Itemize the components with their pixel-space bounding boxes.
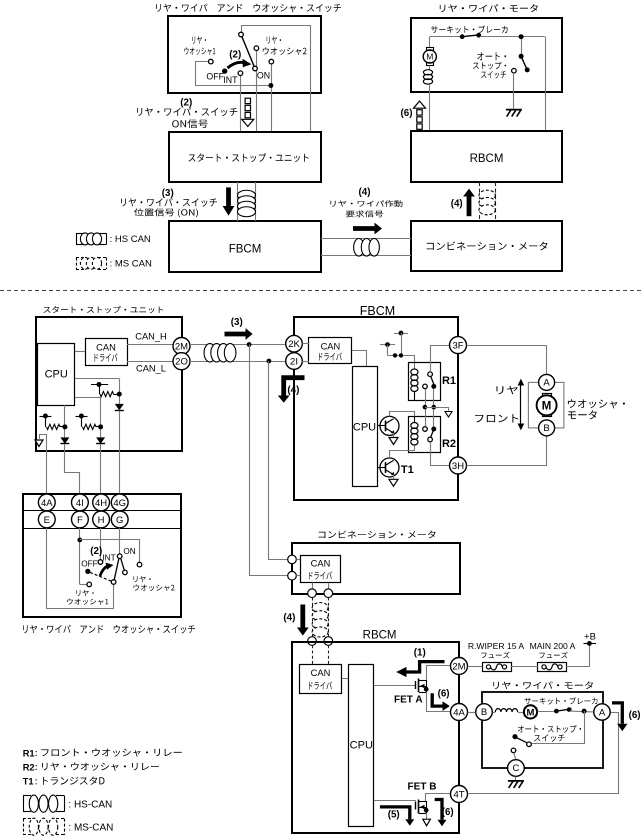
svg-text:ON: ON [257,70,270,80]
svg-text:T1: T1 [401,464,414,476]
svg-text:(2): (2) [180,98,192,109]
svg-text:: MS CAN: : MS CAN [110,259,152,270]
svg-text:(4): (4) [287,385,299,396]
svg-text:CAN_L: CAN_L [136,363,166,373]
svg-text:: MS-CAN: : MS-CAN [68,822,113,833]
svg-text:+B: +B [584,631,596,642]
svg-text:M: M [527,707,535,718]
svg-text:R.WIPER 15 A: R.WIPER 15 A [468,641,525,651]
svg-text:CAN_H: CAN_H [135,331,167,341]
svg-text:4H: 4H [95,498,107,509]
svg-text:(5): (5) [388,810,400,821]
svg-text:ON: ON [123,547,135,556]
svg-text:(6): (6) [629,710,641,721]
svg-text:A: A [543,378,550,389]
svg-text:RBCM: RBCM [470,153,504,165]
svg-text:CAN: CAN [321,342,341,352]
svg-text:F: F [77,515,83,526]
svg-text:2I: 2I [290,356,298,367]
svg-text:OFF: OFF [206,72,224,82]
svg-text:CPU: CPU [353,421,376,433]
svg-text:INT: INT [223,75,238,85]
svg-text:G: G [116,515,123,526]
svg-text:4T: 4T [453,789,464,800]
svg-text:CAN: CAN [96,343,116,353]
svg-text:4G: 4G [113,498,126,509]
svg-text:FET A: FET A [394,694,423,705]
svg-text:R2: R2 [442,438,456,450]
svg-text:R1: R1 [23,749,35,759]
svg-text:(4): (4) [359,187,371,198]
svg-text:FET B: FET B [408,782,437,793]
svg-text:CPU: CPU [350,740,373,752]
svg-text:A: A [599,707,606,718]
svg-text:T1: T1 [23,777,34,787]
svg-text:OFF: OFF [81,560,97,569]
svg-text:(6): (6) [442,807,454,818]
svg-text:R1: R1 [442,375,456,387]
svg-text:CPU: CPU [45,368,68,380]
svg-text:(2): (2) [90,546,102,557]
svg-text:(4): (4) [283,612,295,623]
svg-text:(6): (6) [401,108,413,119]
svg-text:4A: 4A [453,707,465,718]
svg-text:E: E [44,515,50,526]
svg-text:(2): (2) [229,50,241,61]
svg-text:C: C [512,763,519,774]
svg-text:M: M [426,52,433,62]
svg-text:RBCM: RBCM [363,629,397,641]
svg-text:B: B [543,423,549,434]
svg-text:R2: R2 [23,763,35,773]
svg-text:2M: 2M [175,341,188,352]
svg-text:FBCM: FBCM [229,243,262,255]
svg-text:INT: INT [102,553,115,562]
svg-text:3H: 3H [452,461,464,472]
svg-text:(3): (3) [231,317,243,328]
svg-text:(4): (4) [451,199,463,210]
svg-text:CAN: CAN [311,668,331,678]
svg-text:2K: 2K [288,339,300,350]
svg-text:CAN: CAN [311,559,331,569]
svg-text:4I: 4I [76,498,84,509]
svg-text:FBCM: FBCM [360,304,395,318]
svg-text:3F: 3F [452,341,463,352]
svg-text:B: B [481,707,487,718]
svg-text:M: M [542,400,552,412]
svg-text:2M: 2M [452,661,465,672]
svg-text:: HS-CAN: : HS-CAN [68,799,112,810]
svg-text:(6): (6) [438,689,450,700]
svg-text:2O: 2O [175,357,188,368]
svg-text:: HS CAN: : HS CAN [110,234,151,245]
svg-text:(1): (1) [414,648,426,659]
svg-text:H: H [98,515,105,526]
svg-text:4A: 4A [41,498,53,509]
svg-text:MAIN 200 A: MAIN 200 A [530,641,576,651]
svg-text:(3): (3) [162,188,174,199]
